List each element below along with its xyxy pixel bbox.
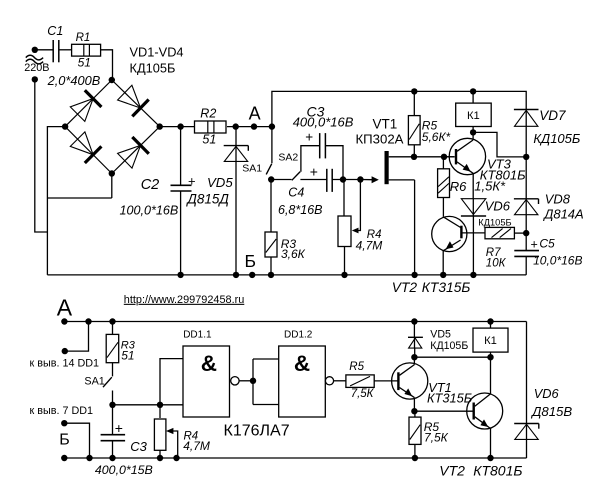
svg-text:7,5К: 7,5К <box>424 431 449 445</box>
svg-text:5,6К*: 5,6К* <box>422 130 451 144</box>
svg-text:3,6К: 3,6К <box>281 247 306 261</box>
svg-text:КТ315Б: КТ315Б <box>422 280 471 295</box>
svg-text:VT1: VT1 <box>373 117 398 132</box>
svg-text:VD6: VD6 <box>485 199 511 214</box>
svg-text:VD1-VD4: VD1-VD4 <box>130 45 184 60</box>
svg-text:C2: C2 <box>141 177 160 193</box>
svg-text:400,0*15В: 400,0*15В <box>95 463 153 477</box>
svg-text:КП302А: КП302А <box>356 132 404 147</box>
svg-text:+: + <box>115 420 123 436</box>
svg-text:4,7М: 4,7М <box>356 239 383 253</box>
svg-text:220В: 220В <box>24 62 49 74</box>
svg-text:DD1.2: DD1.2 <box>284 329 313 340</box>
svg-text:SA2: SA2 <box>278 152 298 164</box>
svg-text:А: А <box>249 104 261 124</box>
svg-text:А: А <box>57 294 73 320</box>
svg-text:7,5К: 7,5К <box>351 388 375 400</box>
svg-text:VD8: VD8 <box>545 191 571 206</box>
svg-text:К1: К1 <box>484 335 497 347</box>
svg-text:51: 51 <box>121 348 134 362</box>
svg-text:C1: C1 <box>47 24 63 38</box>
svg-text:&: & <box>201 351 217 376</box>
svg-text:SA1: SA1 <box>242 163 262 175</box>
svg-text:51: 51 <box>78 55 91 69</box>
svg-text:КТ801Б: КТ801Б <box>473 462 522 478</box>
svg-text:R2: R2 <box>200 107 216 121</box>
svg-text:VT2: VT2 <box>392 280 418 295</box>
svg-text:КТ315Б: КТ315Б <box>427 391 472 406</box>
svg-text:VD6: VD6 <box>534 386 560 401</box>
svg-text:К1: К1 <box>467 110 480 122</box>
svg-text:VT2: VT2 <box>439 462 465 478</box>
svg-text:&: & <box>294 351 310 376</box>
svg-text:Д815В: Д815В <box>530 404 572 419</box>
svg-text:КД105Б: КД105Б <box>478 217 511 227</box>
svg-text:SA1: SA1 <box>84 376 104 388</box>
svg-text:Д815Д: Д815Д <box>185 192 229 207</box>
svg-text:R1: R1 <box>76 32 91 44</box>
svg-text:Д814А: Д814А <box>542 207 584 222</box>
svg-text:2,0*400В: 2,0*400В <box>47 73 101 88</box>
svg-text:DD1.1: DD1.1 <box>183 329 212 340</box>
svg-text:+: + <box>305 130 313 145</box>
svg-text:+: + <box>310 164 318 180</box>
svg-text:к выв. 7 DD1: к выв. 7 DD1 <box>30 405 94 417</box>
svg-text:Б: Б <box>59 432 70 449</box>
svg-text:C4: C4 <box>288 185 304 199</box>
svg-text:КД105Б: КД105Б <box>430 340 468 352</box>
svg-text:6,8*16В: 6,8*16В <box>278 203 322 217</box>
svg-text:VD5: VD5 <box>207 175 233 190</box>
svg-text:10К: 10К <box>486 257 507 269</box>
svg-text:+: + <box>531 237 538 251</box>
svg-text:10,0*16В: 10,0*16В <box>533 253 582 267</box>
svg-text:VD5: VD5 <box>430 329 451 341</box>
svg-text:C3: C3 <box>130 439 147 454</box>
svg-text:4,7М: 4,7М <box>183 439 210 453</box>
svg-text:51: 51 <box>202 132 216 146</box>
svg-text:+: + <box>188 174 196 189</box>
svg-text:R6: R6 <box>450 179 467 194</box>
svg-text:R5: R5 <box>349 361 364 373</box>
svg-text:КД105Б: КД105Б <box>130 60 176 75</box>
svg-text:Б: Б <box>245 251 256 271</box>
svg-text:400,0*16В: 400,0*16В <box>293 115 354 130</box>
svg-text:К176ЛА7: К176ЛА7 <box>224 422 290 439</box>
svg-text:1,5К*: 1,5К* <box>474 178 506 193</box>
svg-text:VD7: VD7 <box>539 108 566 123</box>
svg-text:http://www.299792458.ru: http://www.299792458.ru <box>124 294 244 306</box>
svg-text:КД105Б: КД105Б <box>533 131 581 146</box>
svg-text:100,0*16В: 100,0*16В <box>120 204 179 218</box>
svg-text:к выв. 14 DD1: к выв. 14 DD1 <box>30 358 100 370</box>
svg-text:C5: C5 <box>539 237 555 251</box>
